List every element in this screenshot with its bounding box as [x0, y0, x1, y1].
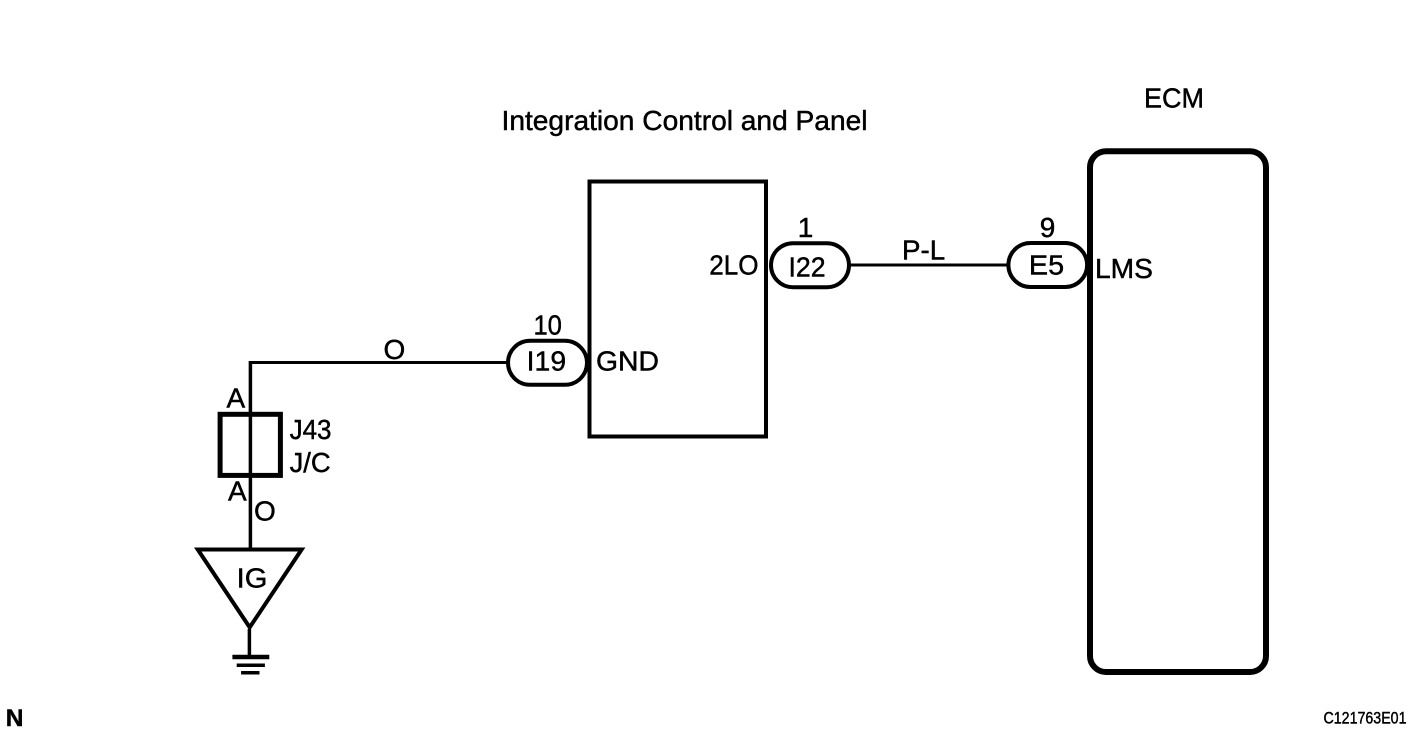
svg-text:A: A: [227, 383, 246, 414]
svg-text:LMS: LMS: [1095, 253, 1153, 284]
svg-text:O: O: [384, 334, 406, 365]
svg-text:J/C: J/C: [290, 447, 331, 478]
svg-text:IG: IG: [237, 562, 268, 593]
svg-text:I22: I22: [788, 252, 825, 283]
svg-text:9: 9: [1040, 212, 1056, 243]
svg-text:N: N: [6, 705, 24, 732]
svg-text:A: A: [228, 476, 247, 507]
svg-text:1: 1: [798, 212, 814, 243]
svg-text:O: O: [254, 496, 276, 527]
svg-text:10: 10: [533, 310, 562, 341]
svg-text:J43: J43: [290, 414, 332, 445]
svg-text:2LO: 2LO: [709, 250, 758, 281]
svg-text:C121763E01: C121763E01: [1324, 709, 1407, 728]
svg-text:E5: E5: [1029, 250, 1064, 281]
svg-text:P-L: P-L: [902, 235, 945, 266]
svg-text:I19: I19: [527, 346, 566, 377]
svg-text:Integration Control and Panel: Integration Control and Panel: [502, 105, 868, 136]
svg-text:GND: GND: [596, 346, 659, 377]
svg-text:ECM: ECM: [1144, 83, 1204, 114]
